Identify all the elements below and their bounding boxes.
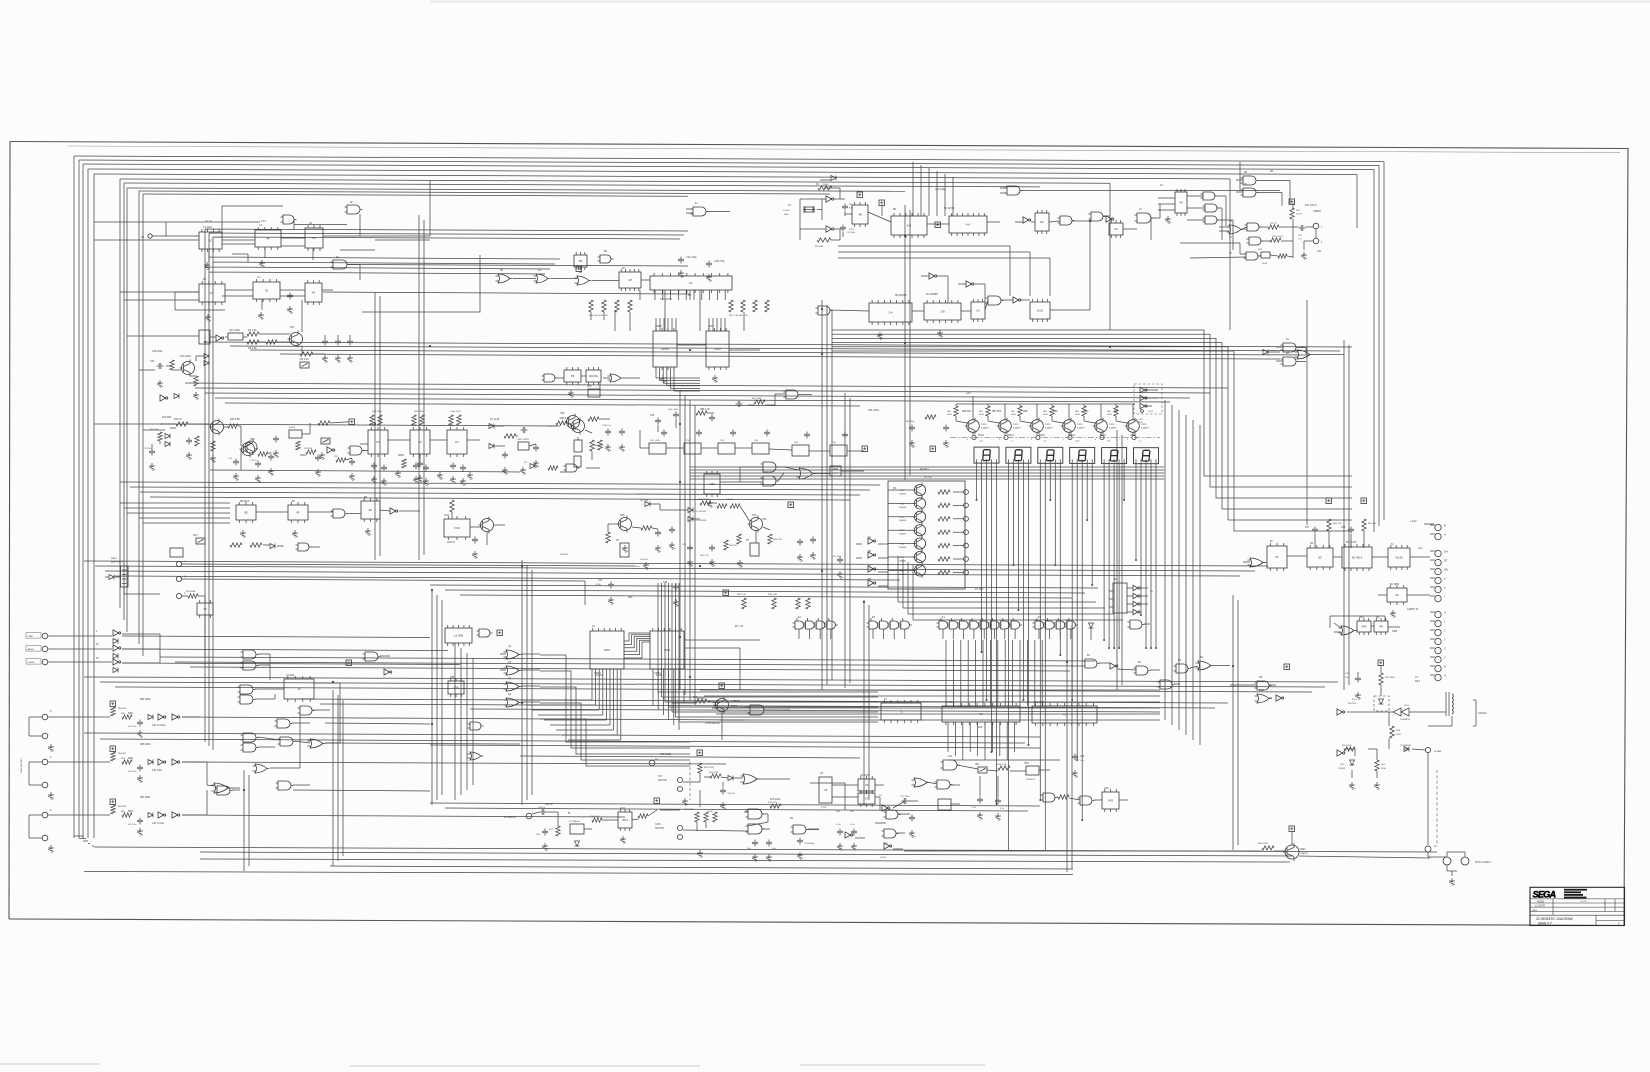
gate 27 xyxy=(1000,186,1280,195)
labels 12 xyxy=(878,795,883,797)
svg-text:R72 75: R72 75 xyxy=(1270,223,1278,225)
label 100VAC xyxy=(1473,700,1487,726)
svg-text:D2 1S1588: D2 1S1588 xyxy=(695,511,707,513)
IC 4011 ant xyxy=(618,809,632,843)
resistor R98 xyxy=(186,590,198,598)
resistor R96 xyxy=(1258,843,1274,850)
label row texts xyxy=(372,411,461,413)
input connectors top xyxy=(26,633,112,665)
resistor VR box xyxy=(228,329,243,340)
wire 4C xyxy=(1268,347,1344,362)
svg-text:C: C xyxy=(1444,647,1446,651)
IC 6J driver xyxy=(1388,545,1410,570)
gate DA5 xyxy=(1128,620,1145,629)
svg-text:TR1: TR1 xyxy=(290,326,295,329)
wire row5 xyxy=(830,221,1090,311)
wire bus verticals x680 xyxy=(680,390,695,705)
svg-text:TR34: TR34 xyxy=(899,544,905,546)
IC A6 flip-flop xyxy=(305,225,323,251)
svg-text:220Ω: 220Ω xyxy=(1381,768,1386,770)
svg-text:2KVB: 2KVB xyxy=(1262,263,1268,265)
svg-text:3B: 3B xyxy=(1244,171,1247,174)
svg-text:TURN SW LEFT: TURN SW LEFT xyxy=(21,757,23,773)
wire bus band I xyxy=(520,756,860,758)
capacitor C78 xyxy=(909,815,915,838)
box VR5 xyxy=(587,386,600,397)
ground 5B xyxy=(877,332,883,339)
svg-text:TR8: TR8 xyxy=(620,514,625,517)
wire gates mid xyxy=(720,467,864,482)
gate video B xyxy=(1245,223,1262,231)
inverter 1F xyxy=(826,196,834,202)
diode D7 xyxy=(489,424,494,429)
svg-text:5C 4006BT: 5C 4006BT xyxy=(926,293,939,296)
svg-text:2SA694: 2SA694 xyxy=(1300,852,1309,855)
capacitor C15 xyxy=(250,460,261,482)
svg-text:L4P 100u: L4P 100u xyxy=(152,769,163,772)
resistor R82 xyxy=(684,809,699,822)
gate H9 xyxy=(308,739,326,748)
svg-text:42: 42 xyxy=(265,289,269,293)
svg-text:C84 5u: C84 5u xyxy=(538,807,546,809)
wire bus verticals x1117 xyxy=(1117,430,1122,690)
svg-text:TR24: TR24 xyxy=(1100,434,1107,437)
svg-text:2SA694: 2SA694 xyxy=(1077,426,1085,429)
svg-text:C48: C48 xyxy=(1341,527,1346,529)
svg-text:6H 4013: 6H 4013 xyxy=(1352,556,1363,560)
IC 6P analog flip-flop xyxy=(410,427,430,457)
transistor TR1 xyxy=(288,326,303,348)
svg-text:400-8A: 400-8A xyxy=(589,374,598,378)
svg-text:FE5: FE5 xyxy=(628,596,633,599)
svg-text:330-H: 330-H xyxy=(1296,213,1302,215)
transistor TR21 driver xyxy=(997,418,1022,435)
svg-text:1A: 1A xyxy=(655,758,658,761)
gate 11A xyxy=(1083,659,1100,668)
resistor R66 xyxy=(768,534,783,544)
gate extra left2 xyxy=(253,764,270,773)
svg-text:R65 560Ω: R65 560Ω xyxy=(1342,745,1352,747)
gate L6 xyxy=(477,629,493,637)
svg-text:14.300: 14.300 xyxy=(783,210,790,212)
wire gate column loops xyxy=(540,655,690,766)
svg-text:TILT: TILT xyxy=(658,776,663,778)
wire seg driver 1 xyxy=(988,404,1005,435)
svg-text:R71 330-H: R71 330-H xyxy=(1305,204,1317,207)
connector seg 0 xyxy=(967,435,976,441)
svg-text:560Ω: 560Ω xyxy=(1107,414,1112,416)
IC T1 counter xyxy=(942,703,1020,729)
IC 92B small xyxy=(448,678,464,697)
wire staircase center xyxy=(898,556,1123,620)
svg-text:8C: 8C xyxy=(1040,220,1044,224)
resistor R62 xyxy=(925,415,936,419)
label K1 sub xyxy=(688,293,692,297)
gate 4T xyxy=(816,306,833,315)
wire video cluster xyxy=(1103,162,1240,250)
capacitor C67 xyxy=(810,537,816,560)
label SR3 xyxy=(1392,629,1398,633)
svg-text:9R: 9R xyxy=(1379,625,1383,629)
pot VR2 xyxy=(321,438,330,444)
capacitor C59 xyxy=(650,415,661,425)
svg-text:C76: C76 xyxy=(598,580,603,582)
svg-text:C1A 470p: C1A 470p xyxy=(686,256,697,259)
svg-text:C47: C47 xyxy=(1305,527,1310,529)
gate 12B xyxy=(912,778,930,787)
svg-text:C9 100p: C9 100p xyxy=(847,232,856,234)
capacitor P2 a xyxy=(371,463,387,472)
wire seg driver 0 xyxy=(956,404,973,435)
resistor R94p xyxy=(1375,760,1387,771)
box VDD xyxy=(1024,763,1039,781)
inverter DA4 xyxy=(1133,609,1140,614)
wire bus verticals x865 xyxy=(864,600,869,805)
resistor array right xyxy=(729,300,769,312)
svg-text:6D: 6D xyxy=(868,578,871,581)
IC P2 analog flip-flop xyxy=(368,427,388,457)
wire coin latch xyxy=(683,812,770,831)
svg-text:1K: 1K xyxy=(1229,252,1232,255)
wire bus band F xyxy=(84,677,1338,692)
inverter 2Ba xyxy=(929,273,937,279)
wire gates T xyxy=(1099,663,1276,698)
gate 3Bb xyxy=(1203,204,1220,212)
IC 10D xyxy=(704,471,720,497)
svg-text:U6 179/2: U6 179/2 xyxy=(860,774,870,777)
svg-text:1913b: 1913b xyxy=(1395,556,1403,560)
svg-text:6A: 6A xyxy=(868,536,871,539)
gate U9 xyxy=(884,810,901,819)
diode D6 xyxy=(524,462,535,469)
gate H11 xyxy=(276,781,294,790)
resistor R31 xyxy=(334,456,346,462)
svg-text:I01/2: I01/2 xyxy=(1037,309,1044,313)
gate video T xyxy=(1244,252,1261,260)
svg-text:R44: R44 xyxy=(449,424,454,427)
connector mtg a xyxy=(1443,857,1451,865)
svg-text:560Ω: 560Ω xyxy=(947,414,952,416)
IC 1C flip-flop xyxy=(199,229,222,252)
svg-text:9: 9 xyxy=(1127,439,1128,441)
gate 12A xyxy=(941,760,960,770)
svg-text:TR22: TR22 xyxy=(1045,424,1051,426)
title block address bars xyxy=(1564,889,1587,899)
svg-text:CARRY IN: CARRY IN xyxy=(1407,608,1419,611)
svg-text:L4P 100u: L4P 100u xyxy=(128,824,137,826)
square terminal P xyxy=(1378,660,1384,666)
resistor R72a 470 xyxy=(1270,236,1283,242)
inverter DA1 xyxy=(1133,585,1140,590)
wire row1c xyxy=(210,300,350,354)
resistor ladder P3 xyxy=(449,415,461,425)
IC 8E flip-flop xyxy=(236,502,256,523)
svg-text:TR32: TR32 xyxy=(899,517,905,519)
inverter 11B xyxy=(1110,663,1118,669)
inverter drv2 xyxy=(868,552,876,558)
resistor R29 xyxy=(304,448,316,454)
svg-text:4P: 4P xyxy=(628,278,632,282)
IC VR3b xyxy=(1374,618,1388,635)
resistor R72 75 xyxy=(1268,223,1279,229)
resistor R50 xyxy=(590,440,604,451)
inverter U8 xyxy=(845,832,853,838)
capacitor C21p xyxy=(1345,673,1361,699)
transistor TR8 xyxy=(617,516,632,533)
svg-text:R36 6.8K: R36 6.8K xyxy=(768,594,778,596)
svg-text:VCO: VCO xyxy=(454,526,461,530)
title block row1 xyxy=(1537,900,1544,903)
wire counters xyxy=(868,206,1090,224)
svg-text:VR2: VR2 xyxy=(1104,787,1109,790)
connector video gnd xyxy=(1313,238,1323,244)
svg-text:VR1: VR1 xyxy=(975,764,980,766)
wire p1 xyxy=(1330,616,1400,632)
svg-text:C41: C41 xyxy=(1317,250,1322,253)
svg-text:COIN: COIN xyxy=(655,824,661,826)
svg-text:6K 4050: 6K 4050 xyxy=(1390,583,1400,586)
crystal X1 14.318MHz xyxy=(783,204,815,216)
gate coin nand2 xyxy=(746,824,765,834)
svg-text:R61 150K: R61 150K xyxy=(752,398,762,400)
svg-text:P3: P3 xyxy=(455,440,459,444)
box delay line xyxy=(289,427,302,438)
gate 7D xyxy=(608,374,624,382)
gate H6 xyxy=(241,733,259,742)
svg-text:D3 1S1588: D3 1S1588 xyxy=(695,520,707,522)
connector antenna xyxy=(526,813,532,819)
capacitor C76 470p xyxy=(596,580,614,604)
resistor R4 2.2K xyxy=(300,352,313,361)
seven-segment display DS3 xyxy=(1038,447,1063,463)
diode D13 xyxy=(1400,744,1412,752)
label digit 1 xyxy=(1011,441,1015,443)
svg-text:C47 10u: C47 10u xyxy=(726,499,735,501)
svg-text:R86 560: R86 560 xyxy=(962,410,972,413)
ground 7B xyxy=(568,390,574,397)
gate 3D xyxy=(1241,176,1259,185)
input group C xyxy=(29,799,180,852)
diode D4 xyxy=(640,500,650,507)
wire bus band H xyxy=(84,733,1040,743)
diode row end xyxy=(1089,623,1094,640)
svg-text:2G: 2G xyxy=(1114,227,1118,231)
ground 8F xyxy=(292,530,298,537)
svg-text:RET): RET) xyxy=(1138,422,1143,424)
transistor TR9 xyxy=(748,516,768,533)
ground P2 xyxy=(371,476,387,485)
inverter 11G xyxy=(1276,695,1284,701)
svg-text:2SA694: 2SA694 xyxy=(899,533,907,536)
title block row2 xyxy=(1535,905,1545,908)
inverter DA2 xyxy=(1133,593,1140,598)
wire bus right verticals xyxy=(1110,162,1384,532)
resistor mix1 xyxy=(230,543,262,547)
gate column or2 xyxy=(504,666,522,675)
connector P3 xyxy=(1425,747,1441,753)
IC 4R xyxy=(199,330,210,344)
svg-text:R67 56K: R67 56K xyxy=(729,545,738,547)
inverter in3 xyxy=(113,659,121,673)
square terminal video xyxy=(1289,199,1295,205)
resistor R1 360K xyxy=(816,184,832,190)
gate 4Ca xyxy=(1281,343,1299,352)
resistor R16 8.2K xyxy=(266,340,277,344)
svg-text:TR20: TR20 xyxy=(978,434,985,437)
svg-text:4515: 4515 xyxy=(604,648,611,652)
wire bus verticals x1235 xyxy=(1233,595,1238,850)
capacitor C14 xyxy=(228,458,239,480)
svg-text:4-A: 4-A xyxy=(966,223,970,227)
gate column or4 xyxy=(504,698,522,707)
gate in-or xyxy=(212,783,231,793)
inverter 1B xyxy=(327,447,335,453)
svg-text:C84 5u: C84 5u xyxy=(545,803,553,806)
wire ff cluster right xyxy=(1243,531,1430,563)
resistor R79 xyxy=(638,814,648,818)
ground mtg xyxy=(1449,878,1455,885)
wire bus band J xyxy=(430,803,1040,811)
svg-text:14514: 14514 xyxy=(656,675,663,677)
wire bus bottom bundle xyxy=(84,847,1437,875)
svg-text:P2: P2 xyxy=(376,440,380,444)
square terminal B xyxy=(349,419,355,425)
connector seg 5 xyxy=(1127,435,1136,441)
capacitor C64 xyxy=(655,530,661,553)
connector seg 1 xyxy=(999,435,1008,441)
svg-text:R53 100WV: R53 100WV xyxy=(698,499,710,501)
svg-text:+6V: +6V xyxy=(966,391,971,395)
svg-text:T1: T1 xyxy=(979,712,983,716)
inverter O5c xyxy=(1140,403,1147,408)
labels c80 xyxy=(747,848,776,850)
gate 2C xyxy=(534,274,551,283)
capacitor C65 xyxy=(669,527,675,550)
capacitor C47a xyxy=(1305,527,1318,534)
svg-text:R72a 470-H: R72a 470-H xyxy=(1272,236,1283,238)
capacitor C84 xyxy=(538,807,547,815)
IC 5F xyxy=(971,299,985,322)
inverter F1 xyxy=(216,335,224,341)
gate row group2 xyxy=(867,618,912,639)
IC 5C shift xyxy=(924,300,961,323)
ground row1a-2 xyxy=(259,260,265,267)
gate extra L2 xyxy=(468,752,484,760)
svg-text:R96 910Ω: R96 910Ω xyxy=(1258,843,1268,845)
capacitor C66 xyxy=(797,539,803,562)
capacitor C5 xyxy=(322,339,328,363)
square terminal rc xyxy=(862,446,868,452)
diode D1 xyxy=(204,354,209,366)
resistor R25 xyxy=(228,424,238,428)
wire decoder interconnect loops xyxy=(624,633,650,658)
svg-text:2SA694: 2SA694 xyxy=(899,573,907,576)
inverter O5a xyxy=(1140,387,1147,392)
ground TR4b xyxy=(193,392,199,399)
inverter U10 xyxy=(884,843,892,849)
inverter H12 xyxy=(384,669,392,675)
svg-text:100: 100 xyxy=(978,726,983,729)
svg-text:C60 .005u: C60 .005u xyxy=(668,409,679,411)
resistor R-row xyxy=(742,598,810,609)
label ANTENNA xyxy=(504,816,516,819)
svg-text:470p: 470p xyxy=(661,586,667,588)
svg-text:12A: 12A xyxy=(948,755,953,758)
svg-text:92B: 92B xyxy=(450,676,455,679)
IC 4B vco xyxy=(849,202,868,231)
svg-text:C59 .005u: C59 .005u xyxy=(868,409,880,412)
svg-text:U5: U5 xyxy=(824,788,828,792)
connector 1A xyxy=(1425,845,1437,852)
title block scale label xyxy=(1580,901,1587,903)
svg-text:SWITCH: SWITCH xyxy=(655,828,664,830)
capacitor C91 xyxy=(797,838,815,860)
ground TR4 xyxy=(157,380,163,387)
resistor R23 xyxy=(195,436,199,446)
seven-segment display DS6 xyxy=(1134,448,1159,464)
seven-segment display DS1 xyxy=(974,447,999,463)
svg-text:2SA694: 2SA694 xyxy=(1013,426,1021,429)
capacitor C13 xyxy=(143,448,155,470)
svg-text:MTG-GND L: MTG-GND L xyxy=(1475,860,1492,864)
transistor TR2 xyxy=(209,419,224,436)
svg-text:TE-1: TE-1 xyxy=(1352,699,1358,701)
pot P5 xyxy=(746,539,759,556)
svg-text:3D: 3D xyxy=(1244,183,1247,186)
svg-text:TR35: TR35 xyxy=(899,557,905,559)
wire bus mid band B xyxy=(185,383,1228,406)
diode D2 xyxy=(174,394,179,399)
svg-text:1S1588: 1S1588 xyxy=(1338,768,1346,770)
wire input long runs xyxy=(122,636,745,817)
inverter 8J xyxy=(390,508,398,514)
svg-text:Vss: Vss xyxy=(1418,546,1423,550)
IC T3 counter xyxy=(881,700,921,723)
svg-text:L4P 10 22u: L4P 10 22u xyxy=(152,822,165,825)
gate column or3 xyxy=(504,682,522,691)
gate H2 xyxy=(241,661,259,670)
capacitor C17 xyxy=(315,455,321,477)
svg-text:R87 680L: R87 680L xyxy=(140,796,151,799)
svg-text:TEST: TEST xyxy=(731,705,738,708)
wire extra left xyxy=(270,710,330,768)
svg-text:TR25: TR25 xyxy=(1130,434,1137,437)
svg-text:RET: RET xyxy=(1415,680,1420,683)
pot P4 xyxy=(616,539,629,557)
label VIDEO xyxy=(1313,209,1321,213)
wire bus band G xyxy=(300,699,1228,708)
svg-text:R63 820: R63 820 xyxy=(560,554,569,556)
IC 6D counter xyxy=(653,328,677,370)
svg-text:4011: 4011 xyxy=(620,807,626,810)
IC K1 resistor-array xyxy=(650,273,732,293)
inverter drv1 xyxy=(868,538,876,544)
resistor R10 test xyxy=(693,697,707,703)
IC U6 xyxy=(858,776,875,794)
svg-text:C91 6800p: C91 6800p xyxy=(804,843,815,845)
svg-text:UNIT: UNIT xyxy=(1532,910,1538,912)
ground 6P xyxy=(413,476,429,485)
wire tr56 xyxy=(904,832,1430,858)
seven-segment display DS4 xyxy=(1070,447,1095,463)
gate H7 xyxy=(241,743,259,752)
svg-text:R58 1.2K: R58 1.2K xyxy=(700,408,710,411)
wire crystal osc xyxy=(800,188,852,240)
resistor R80 xyxy=(1326,498,1342,531)
ground P4b xyxy=(1374,782,1380,789)
svg-text:DT: DT xyxy=(1444,559,1448,563)
svg-text:H: H xyxy=(1444,533,1446,537)
